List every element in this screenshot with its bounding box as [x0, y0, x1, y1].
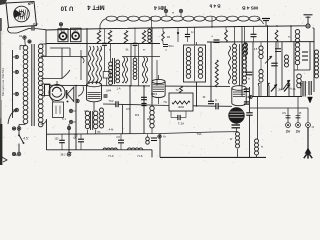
svg-text:5 1: 5 1: [62, 117, 66, 121]
svg-text:IF3: IF3: [135, 113, 140, 117]
svg-text:41: 41: [19, 34, 23, 38]
svg-text:150: 150: [74, 135, 79, 138]
svg-text:50n: 50n: [168, 44, 173, 48]
svg-text:T3A: T3A: [197, 132, 202, 136]
svg-text:T 2A: T 2A: [178, 122, 184, 126]
svg-text:2v: 2v: [296, 128, 301, 133]
svg-text:MFT 4: MFT 4: [87, 4, 105, 10]
svg-text:4.5: 4.5: [23, 137, 28, 141]
svg-text:152: 152: [55, 138, 60, 141]
svg-text:4,5: 4,5: [116, 135, 120, 139]
svg-text:П-6: П-6: [138, 154, 143, 158]
svg-text:3M: 3M: [278, 89, 281, 92]
svg-text:+: +: [211, 35, 213, 39]
svg-text:w: w: [248, 78, 250, 81]
svg-text:m: m: [288, 36, 290, 39]
svg-text:MS 4 B: MS 4 B: [241, 5, 258, 11]
svg-text:Kr: Kr: [163, 135, 166, 139]
svg-text:U 10: U 10: [60, 5, 73, 11]
svg-text:MH 4: MH 4: [154, 4, 166, 10]
svg-text:=: =: [165, 48, 167, 52]
svg-text:0,5: 0,5: [126, 107, 130, 111]
svg-text:B 4 b: B 4 b: [209, 4, 220, 9]
svg-text:3B 2: 3B 2: [60, 154, 66, 157]
svg-text:3F: 3F: [202, 95, 205, 99]
svg-text:LW4: LW4: [106, 89, 112, 93]
svg-text:E41: E41: [73, 30, 78, 33]
svg-text:N: N: [15, 153, 17, 157]
svg-text:Microphone 436.561: Microphone 436.561: [1, 68, 5, 96]
svg-text:w: w: [172, 12, 174, 15]
svg-text:w: w: [261, 146, 263, 149]
svg-text:П-3: П-3: [109, 154, 114, 158]
svg-text:Tf: Tf: [215, 99, 218, 103]
svg-text:2v: 2v: [286, 128, 291, 133]
svg-text:W: W: [230, 137, 233, 141]
svg-text:2A: 2A: [292, 88, 295, 91]
svg-text:E41: E41: [61, 30, 66, 33]
svg-text:4MΩ: 4MΩ: [178, 105, 184, 109]
svg-text:TC2: TC2: [108, 99, 114, 103]
svg-text:1 A: 1 A: [116, 87, 120, 91]
svg-text:4-M: 4-M: [109, 128, 113, 132]
svg-text:2MF: 2MF: [33, 22, 39, 26]
svg-text:m: m: [143, 49, 145, 52]
svg-text:2R: 2R: [167, 35, 170, 39]
